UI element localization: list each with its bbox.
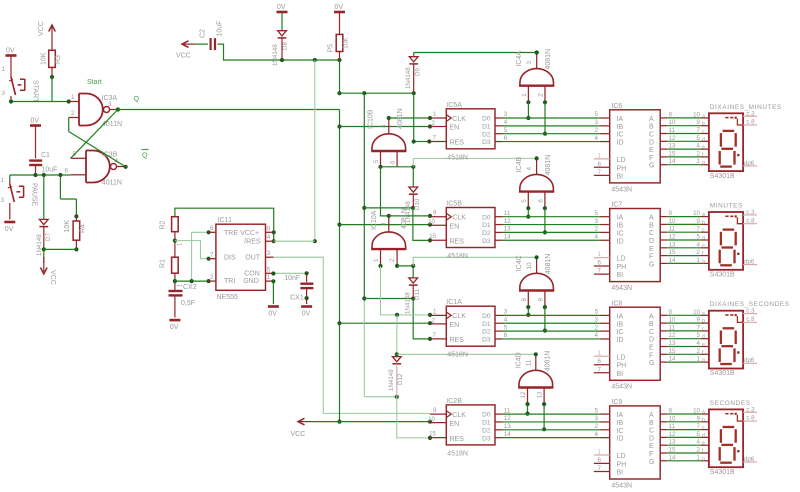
svg-text:d: d (702, 137, 705, 143)
svg-text:C: C (649, 132, 654, 139)
svg-text:D: D (649, 337, 654, 344)
svg-text:S4301B: S4301B (710, 173, 735, 180)
svg-text:10: 10 (693, 111, 700, 118)
svg-text:IC9: IC9 (611, 399, 622, 406)
svg-text:IC4B: IC4B (516, 157, 523, 173)
svg-text:4543N: 4543N (611, 482, 632, 489)
svg-text:G: G (649, 459, 654, 466)
svg-text:D2: D2 (482, 131, 491, 138)
svg-text:EN: EN (450, 421, 460, 428)
svg-text:9: 9 (537, 298, 544, 302)
svg-text:IA: IA (617, 412, 624, 419)
svg-text:10uF: 10uF (217, 21, 224, 37)
svg-text:F: F (649, 155, 653, 162)
svg-text:RES: RES (450, 140, 465, 147)
svg-text:4: 4 (697, 439, 701, 446)
svg-text:c.3: c.3 (746, 209, 755, 216)
svg-text:6: 6 (598, 358, 602, 365)
svg-text:D3: D3 (482, 435, 491, 442)
svg-text:Q: Q (142, 151, 148, 160)
svg-text:IC7: IC7 (611, 202, 622, 209)
svg-text:4: 4 (526, 166, 533, 170)
svg-text:LD: LD (617, 453, 626, 460)
svg-text:VCC: VCC (38, 21, 45, 36)
svg-text:6: 6 (504, 332, 508, 339)
svg-text:1: 1 (2, 66, 6, 73)
svg-text:PH: PH (617, 264, 627, 271)
svg-text:4: 4 (595, 135, 599, 142)
svg-text:IC1A: IC1A (446, 299, 462, 306)
svg-text:10K: 10K (41, 52, 48, 65)
svg-text:10: 10 (693, 408, 700, 415)
svg-text:IC4C: IC4C (516, 255, 523, 271)
svg-text:3: 3 (595, 316, 599, 323)
svg-text:4543N: 4543N (611, 384, 632, 391)
svg-text:CLK: CLK (452, 116, 466, 123)
svg-text:S4301B: S4301B (710, 469, 735, 476)
svg-text:IA: IA (617, 116, 624, 123)
svg-text:B: B (649, 124, 654, 131)
svg-text:4: 4 (267, 234, 271, 241)
svg-text:F: F (649, 254, 653, 261)
svg-text:3: 3 (595, 119, 599, 126)
svg-text:3: 3 (504, 111, 508, 118)
svg-text:7: 7 (598, 366, 602, 373)
svg-text:LD: LD (617, 354, 626, 361)
svg-text:2: 2 (389, 258, 396, 262)
svg-text:2: 2 (432, 317, 436, 324)
svg-text:EN: EN (450, 223, 460, 230)
svg-text:e: e (702, 145, 705, 151)
svg-text:CX2: CX2 (183, 284, 197, 291)
svg-text:10: 10 (428, 219, 435, 226)
svg-text:9: 9 (697, 119, 701, 126)
svg-text:VCC: VCC (176, 53, 191, 60)
svg-text:4081N: 4081N (397, 108, 404, 129)
svg-text:dp6: dp6 (744, 160, 755, 167)
svg-text:D: D (649, 435, 654, 442)
svg-text:2: 2 (697, 348, 701, 355)
svg-text:ID: ID (617, 337, 624, 344)
svg-text:IC5A: IC5A (446, 102, 462, 109)
svg-text:1: 1 (598, 251, 602, 258)
svg-text:4: 4 (504, 119, 508, 126)
svg-text:5: 5 (595, 210, 599, 217)
svg-text:c.8: c.8 (746, 316, 755, 323)
svg-text:D7: D7 (45, 233, 52, 241)
svg-text:D3: D3 (482, 139, 491, 146)
svg-text:c.3: c.3 (746, 406, 755, 413)
svg-text:C2: C2 (200, 29, 207, 38)
svg-text:ID: ID (617, 140, 624, 147)
svg-text:1: 1 (697, 257, 701, 264)
svg-text:8: 8 (521, 298, 528, 302)
svg-text:b: b (702, 319, 705, 325)
svg-text:IC: IC (617, 132, 624, 139)
svg-text:IC5B: IC5B (446, 201, 462, 208)
svg-text:IC11: IC11 (218, 217, 232, 224)
svg-text:2: 2 (595, 324, 599, 331)
svg-text:9: 9 (433, 210, 437, 217)
svg-text:/RES: /RES (244, 238, 261, 245)
svg-text:0V: 0V (302, 311, 311, 318)
svg-text:7: 7 (697, 127, 701, 134)
svg-text:c.3: c.3 (746, 110, 755, 117)
svg-text:G: G (649, 163, 654, 170)
svg-text:Start: Start (87, 79, 102, 86)
svg-text:C1: C1 (41, 152, 50, 159)
svg-text:13: 13 (537, 391, 544, 398)
svg-text:0V: 0V (5, 226, 14, 233)
svg-text:6: 6 (537, 199, 544, 203)
svg-text:2: 2 (697, 249, 701, 256)
svg-text:CON: CON (244, 271, 260, 278)
svg-text:4518N: 4518N (447, 352, 468, 359)
svg-text:dp6: dp6 (744, 357, 755, 364)
svg-text:D3: D3 (482, 337, 491, 344)
svg-text:5: 5 (697, 234, 701, 241)
svg-text:7: 7 (697, 324, 701, 331)
svg-text:1: 1 (598, 449, 602, 456)
svg-text:IC: IC (617, 230, 624, 237)
svg-text:12: 12 (504, 415, 511, 422)
svg-text:IC: IC (617, 329, 624, 336)
svg-text:A: A (649, 412, 654, 419)
svg-text:14: 14 (504, 431, 511, 438)
svg-text:3: 3 (108, 101, 112, 108)
svg-text:1: 1 (433, 308, 437, 315)
svg-text:4081N: 4081N (544, 351, 551, 372)
svg-text:MINUTES: MINUTES (710, 203, 743, 210)
svg-text:4081N: 4081N (545, 49, 552, 70)
svg-text:3: 3 (595, 415, 599, 422)
svg-text:1: 1 (71, 94, 75, 101)
svg-text:g: g (702, 160, 705, 166)
svg-text:4081N: 4081N (401, 208, 408, 229)
svg-text:1: 1 (373, 258, 380, 262)
svg-text:1N4148: 1N4148 (272, 44, 279, 66)
svg-text:7: 7 (210, 252, 214, 259)
svg-text:D12: D12 (397, 373, 404, 385)
svg-text:IC8: IC8 (611, 300, 622, 307)
svg-text:IC: IC (617, 428, 624, 435)
svg-text:1: 1 (598, 350, 602, 357)
svg-text:5: 5 (595, 111, 599, 118)
svg-text:d: d (702, 334, 705, 340)
svg-text:4081N: 4081N (545, 155, 552, 176)
svg-text:NE555: NE555 (217, 294, 239, 301)
svg-text:4081N: 4081N (545, 254, 552, 275)
svg-text:0V: 0V (335, 4, 344, 11)
svg-text:ID: ID (617, 238, 624, 245)
svg-text:0V: 0V (268, 311, 277, 318)
svg-text:B: B (649, 321, 654, 328)
svg-text:CLK: CLK (452, 215, 466, 222)
svg-text:IC10A: IC10A (371, 210, 378, 230)
svg-text:RES: RES (450, 337, 465, 344)
svg-text:2: 2 (595, 226, 599, 233)
svg-text:BI: BI (617, 371, 624, 378)
svg-text:D0: D0 (482, 116, 491, 123)
svg-text:IB: IB (617, 420, 624, 427)
svg-text:1: 1 (697, 454, 701, 461)
svg-text:15: 15 (429, 431, 436, 438)
svg-text:5: 5 (267, 266, 271, 273)
svg-text:R2: R2 (160, 220, 167, 229)
svg-text:S4301B: S4301B (710, 370, 735, 377)
svg-text:4: 4 (697, 143, 701, 150)
svg-text:F: F (649, 352, 653, 359)
svg-text:VCC: VCC (49, 270, 56, 285)
svg-text:D1: D1 (482, 420, 491, 427)
svg-text:3: 3 (2, 90, 6, 97)
svg-text:IC10B: IC10B (368, 109, 375, 129)
svg-text:g: g (702, 358, 705, 364)
svg-text:D2: D2 (482, 427, 491, 434)
svg-text:D11: D11 (414, 289, 421, 300)
svg-text:3: 3 (504, 309, 508, 316)
svg-text:5: 5 (697, 135, 701, 142)
svg-text:D: D (649, 139, 654, 146)
svg-text:10: 10 (693, 210, 700, 217)
svg-text:VCC+: VCC+ (240, 230, 259, 237)
svg-text:1: 1 (433, 111, 437, 118)
svg-text:5: 5 (697, 431, 701, 438)
svg-text:IC2B: IC2B (446, 398, 462, 405)
svg-text:D: D (649, 238, 654, 245)
svg-text:2: 2 (697, 447, 701, 454)
svg-text:BI: BI (617, 470, 624, 477)
svg-text:0,5F: 0,5F (181, 300, 195, 307)
svg-text:1: 1 (267, 274, 271, 281)
svg-text:CX1: CX1 (290, 295, 304, 302)
svg-text:1N4148: 1N4148 (405, 292, 412, 314)
svg-text:14: 14 (504, 233, 511, 240)
svg-text:4518N: 4518N (447, 450, 468, 457)
svg-text:D10: D10 (414, 198, 421, 210)
svg-text:b: b (702, 220, 705, 226)
svg-text:6: 6 (598, 457, 602, 464)
svg-text:6: 6 (504, 135, 508, 142)
svg-text:7: 7 (598, 169, 602, 176)
svg-text:5: 5 (521, 199, 528, 203)
svg-text:A: A (649, 116, 654, 123)
svg-text:0V: 0V (170, 324, 179, 331)
svg-text:START: START (32, 80, 39, 103)
svg-text:6: 6 (598, 161, 602, 168)
svg-text:VCC: VCC (291, 431, 306, 438)
svg-text:5: 5 (595, 309, 599, 316)
svg-text:E: E (649, 147, 654, 154)
svg-text:9: 9 (697, 317, 701, 324)
svg-text:13: 13 (504, 226, 511, 233)
svg-text:1N4148: 1N4148 (36, 234, 43, 256)
svg-text:ID: ID (617, 436, 624, 443)
svg-text:E: E (649, 345, 654, 352)
svg-text:GND: GND (243, 278, 259, 285)
svg-text:g: g (702, 456, 705, 462)
svg-text:0V: 0V (31, 118, 40, 125)
svg-text:D1: D1 (482, 222, 491, 229)
svg-text:6: 6 (389, 160, 396, 164)
svg-text:D0: D0 (482, 214, 491, 221)
svg-text:4: 4 (595, 431, 599, 438)
svg-text:7: 7 (598, 465, 602, 472)
svg-text:EN: EN (450, 125, 460, 132)
svg-text:F: F (649, 451, 653, 458)
svg-text:IC4D: IC4D (515, 352, 522, 368)
svg-text:D0: D0 (482, 412, 491, 419)
svg-text:2: 2 (595, 423, 599, 430)
svg-text:a: a (702, 212, 705, 218)
svg-text:CLK: CLK (452, 313, 466, 320)
svg-text:c.3: c.3 (746, 308, 755, 315)
svg-text:11: 11 (525, 359, 532, 366)
svg-text:LD: LD (617, 157, 626, 164)
svg-text:11: 11 (504, 210, 511, 217)
svg-text:8: 8 (267, 225, 271, 232)
svg-text:LD: LD (617, 256, 626, 263)
svg-text:IA: IA (617, 313, 624, 320)
svg-text:1: 1 (697, 356, 701, 363)
svg-text:7: 7 (433, 332, 437, 339)
svg-text:IC4A: IC4A (516, 51, 523, 67)
svg-text:12: 12 (520, 391, 527, 398)
svg-text:RES: RES (450, 238, 465, 245)
svg-text:1: 1 (598, 152, 602, 159)
svg-text:7: 7 (598, 268, 602, 275)
svg-text:7: 7 (697, 423, 701, 430)
svg-text:R4: R4 (80, 224, 87, 233)
svg-text:dp6: dp6 (744, 259, 755, 266)
svg-text:6: 6 (598, 260, 602, 267)
svg-text:4: 4 (504, 316, 508, 323)
svg-text:D9: D9 (415, 68, 422, 76)
svg-text:S4301B: S4301B (710, 272, 735, 279)
svg-text:5: 5 (504, 324, 508, 331)
svg-text:G: G (649, 261, 654, 268)
svg-text:5: 5 (504, 127, 508, 134)
svg-text:2: 2 (595, 127, 599, 134)
svg-text:2: 2 (538, 93, 545, 97)
svg-text:D3: D3 (482, 238, 491, 245)
svg-text:6: 6 (65, 168, 69, 175)
svg-text:DIS: DIS (224, 255, 236, 262)
svg-text:SECONDES: SECONDES (710, 400, 751, 407)
svg-text:1: 1 (697, 158, 701, 165)
svg-text:10: 10 (526, 262, 533, 269)
svg-text:D1: D1 (482, 123, 491, 130)
svg-text:1: 1 (1, 177, 5, 184)
svg-text:EN: EN (450, 322, 460, 329)
svg-text:a: a (702, 311, 705, 317)
svg-text:PH: PH (617, 461, 627, 468)
svg-text:4543N: 4543N (611, 285, 632, 292)
svg-text:4543N: 4543N (611, 186, 632, 193)
svg-text:BI: BI (617, 272, 624, 279)
svg-text:e: e (702, 342, 705, 348)
svg-text:A: A (649, 215, 654, 222)
svg-text:g: g (702, 259, 705, 265)
svg-text:10nF: 10nF (284, 275, 300, 282)
svg-text:IB: IB (617, 223, 624, 230)
svg-text:IC6: IC6 (611, 103, 622, 110)
svg-text:10: 10 (428, 416, 435, 423)
svg-text:OUT: OUT (245, 255, 260, 262)
svg-text:10: 10 (693, 309, 700, 316)
svg-text:Q: Q (134, 94, 140, 103)
svg-text:IB: IB (617, 321, 624, 328)
svg-text:3: 3 (267, 250, 271, 257)
svg-text:E: E (649, 443, 654, 450)
svg-text:6: 6 (210, 225, 214, 232)
svg-text:IC3A: IC3A (102, 95, 118, 102)
svg-text:b: b (702, 417, 705, 423)
svg-text:4518N: 4518N (447, 154, 468, 161)
svg-text:3: 3 (1, 197, 5, 204)
svg-text:10K: 10K (64, 220, 71, 233)
svg-text:dp6: dp6 (744, 456, 755, 463)
svg-text:0V: 0V (277, 4, 286, 11)
svg-text:IA: IA (617, 215, 624, 222)
svg-text:11: 11 (504, 407, 511, 414)
svg-text:15: 15 (429, 233, 436, 240)
svg-text:4: 4 (381, 124, 388, 128)
svg-text:d: d (702, 236, 705, 242)
svg-text:5: 5 (373, 159, 380, 163)
svg-text:5: 5 (595, 407, 599, 414)
svg-text:9: 9 (433, 407, 437, 414)
svg-text:9: 9 (697, 218, 701, 225)
svg-text:C: C (649, 428, 654, 435)
svg-text:c.8: c.8 (746, 119, 755, 126)
svg-text:D1: D1 (482, 321, 491, 328)
svg-text:d: d (702, 433, 705, 439)
svg-text:1N4148: 1N4148 (388, 369, 395, 391)
svg-text:D0: D0 (482, 313, 491, 320)
svg-text:PAUSE: PAUSE (31, 183, 38, 207)
svg-text:c.8: c.8 (746, 217, 755, 224)
svg-text:4011N: 4011N (102, 180, 122, 187)
svg-text:TRE: TRE (224, 230, 238, 237)
svg-text:4: 4 (697, 241, 701, 248)
svg-text:1: 1 (521, 93, 528, 97)
svg-text:e: e (702, 243, 705, 249)
svg-text:12: 12 (504, 218, 511, 225)
svg-text:D2: D2 (482, 230, 491, 237)
svg-text:9: 9 (697, 415, 701, 422)
svg-text:4518N: 4518N (447, 253, 468, 260)
svg-text:2: 2 (210, 274, 214, 281)
svg-text:3: 3 (595, 218, 599, 225)
svg-text:A: A (649, 313, 654, 320)
svg-text:R3: R3 (55, 55, 62, 64)
svg-text:10uF: 10uF (42, 167, 58, 174)
svg-text:C: C (649, 329, 654, 336)
svg-text:10k: 10k (343, 37, 350, 49)
svg-text:4: 4 (697, 340, 701, 347)
svg-text:1N4148: 1N4148 (405, 67, 412, 89)
svg-text:PH: PH (617, 165, 627, 172)
svg-text:b: b (702, 121, 705, 127)
svg-text:2: 2 (432, 120, 436, 127)
svg-text:7: 7 (697, 226, 701, 233)
svg-text:B: B (649, 420, 654, 427)
svg-text:4: 4 (595, 233, 599, 240)
svg-text:CLK: CLK (452, 412, 466, 419)
svg-text:13: 13 (504, 423, 511, 430)
svg-text:3: 3 (526, 61, 533, 65)
